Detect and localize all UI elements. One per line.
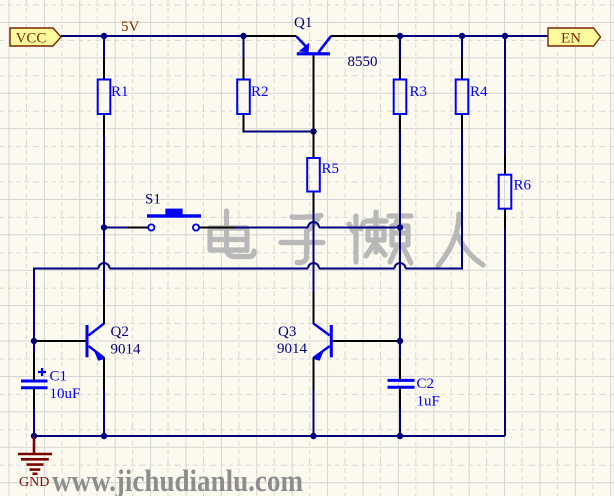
svg-text:C1: C1 bbox=[50, 369, 68, 385]
svg-text:VCC: VCC bbox=[16, 31, 47, 47]
transistor Q3 bbox=[277, 324, 333, 361]
svg-text:1uF: 1uF bbox=[417, 394, 440, 410]
resistor R2 bbox=[237, 80, 268, 115]
resistor R3 bbox=[394, 80, 427, 115]
node junction Q2 base / C1 bbox=[31, 338, 37, 344]
pin R6 top bbox=[504, 155, 506, 175]
pin R2 top bbox=[243, 59, 245, 80]
transistor Q1 bbox=[294, 15, 378, 70]
svg-text:5V: 5V bbox=[121, 19, 140, 35]
node junction R6 top bbox=[502, 33, 508, 39]
svg-text:R3: R3 bbox=[410, 84, 428, 100]
svg-text:GND: GND bbox=[19, 475, 49, 490]
svg-text:R6: R6 bbox=[514, 178, 532, 194]
pin Q3 base bbox=[333, 340, 398, 342]
pin C2 bottom bbox=[399, 387, 401, 407]
resistor R4 bbox=[456, 80, 488, 115]
wire Q3 emitter to ground rail bbox=[313, 390, 315, 436]
wire R2 bottom to Q1 base node bbox=[244, 131, 314, 133]
pin Q2 collector bbox=[103, 290, 105, 324]
pin C1 bottom bbox=[33, 388, 35, 409]
wire C2 bottom bbox=[399, 407, 401, 436]
svg-text:www.jichudianlu.com: www.jichudianlu.com bbox=[52, 463, 303, 496]
svg-text:R5: R5 bbox=[322, 161, 340, 177]
pin Q2 emitter bbox=[103, 358, 105, 391]
pin Q3 emitter bbox=[313, 358, 315, 391]
wire R4 column bbox=[461, 36, 463, 270]
pin R1 top bbox=[103, 59, 105, 80]
svg-text:8550: 8550 bbox=[348, 54, 378, 70]
svg-text:Q1: Q1 bbox=[294, 15, 312, 31]
node junction Q1 base / R2 / R5 bbox=[310, 128, 316, 134]
power flag VCC bbox=[10, 28, 61, 47]
node junction R3 top bbox=[397, 33, 403, 39]
pin R1 bottom bbox=[103, 114, 105, 135]
wire 5V top rail bbox=[61, 35, 548, 37]
node junction R1-S1 bbox=[101, 224, 107, 230]
wire R1 column bbox=[103, 36, 105, 290]
wire R5 to Q3 collector bbox=[313, 213, 315, 292]
pin Q1 collector lead bbox=[331, 35, 401, 37]
svg-text:Q2: Q2 bbox=[111, 324, 129, 340]
node junction R4 top bbox=[459, 33, 465, 39]
power flag EN bbox=[548, 28, 601, 47]
wire Q2 emitter to ground rail bbox=[103, 390, 105, 436]
wire left rail bbox=[33, 268, 35, 437]
svg-text:R1: R1 bbox=[111, 84, 129, 100]
node junction VCC-R1 bbox=[101, 33, 107, 39]
wire R6 column bottom bbox=[504, 228, 506, 436]
pin R6 bottom bbox=[504, 209, 506, 228]
node junction Q3 emitter bbox=[310, 433, 316, 439]
svg-text:S1: S1 bbox=[145, 192, 161, 208]
node junction Q3 base / R3 / C2 bbox=[397, 338, 403, 344]
switch S1 bbox=[145, 192, 201, 231]
svg-text:10uF: 10uF bbox=[50, 386, 81, 402]
pin R4 bottom bbox=[461, 114, 463, 132]
svg-text:Q3: Q3 bbox=[278, 324, 296, 340]
pin Q1 base bbox=[313, 55, 315, 131]
ground symbol bbox=[18, 436, 52, 474]
resistor R1 bbox=[98, 80, 129, 115]
wire R6 column top bbox=[504, 36, 506, 155]
transistor Q2 bbox=[86, 324, 142, 361]
wire ground rail bbox=[34, 435, 505, 437]
pin S1 right bbox=[199, 227, 235, 229]
wire S1 left bbox=[104, 227, 128, 229]
pin C1 top bbox=[33, 352, 35, 381]
svg-text:9014: 9014 bbox=[277, 341, 308, 357]
node junction C2 bottom bbox=[397, 433, 403, 439]
svg-text:C2: C2 bbox=[417, 376, 435, 392]
pin Q2 base bbox=[36, 340, 86, 342]
pin R3 bottom bbox=[399, 114, 401, 132]
svg-text:R2: R2 bbox=[251, 84, 269, 100]
resistor R5 bbox=[307, 158, 339, 192]
watermark chinese characters bbox=[210, 211, 483, 266]
pin R5 bottom bbox=[313, 192, 315, 214]
node junction S1-R3 column bbox=[397, 224, 403, 230]
pin R5 top bbox=[313, 132, 315, 159]
node junction Q2 emitter bbox=[101, 433, 107, 439]
wire R3 column bbox=[399, 36, 401, 358]
node junction GND stem bbox=[31, 433, 37, 439]
wire R2 column top bbox=[243, 36, 245, 59]
node junction R2 top bbox=[240, 33, 246, 39]
pin S1 left bbox=[128, 227, 148, 229]
capacitor C1 bbox=[21, 368, 80, 402]
resistor R6 bbox=[499, 175, 532, 209]
pin C2 top bbox=[399, 358, 401, 380]
pin R2 bottom bbox=[243, 114, 245, 133]
svg-text:9014: 9014 bbox=[111, 342, 142, 358]
wire mid rail with hops bbox=[34, 263, 462, 269]
wire S1 right with hop over R5 column bbox=[235, 222, 400, 228]
svg-text:EN: EN bbox=[561, 31, 581, 47]
pin Q1 emitter lead bbox=[244, 35, 297, 37]
pin R4 top bbox=[461, 59, 463, 80]
pin Q3 collector bbox=[313, 292, 315, 324]
svg-text:R4: R4 bbox=[470, 84, 488, 100]
capacitor C2 bbox=[388, 376, 440, 410]
pin R3 top bbox=[399, 59, 401, 80]
